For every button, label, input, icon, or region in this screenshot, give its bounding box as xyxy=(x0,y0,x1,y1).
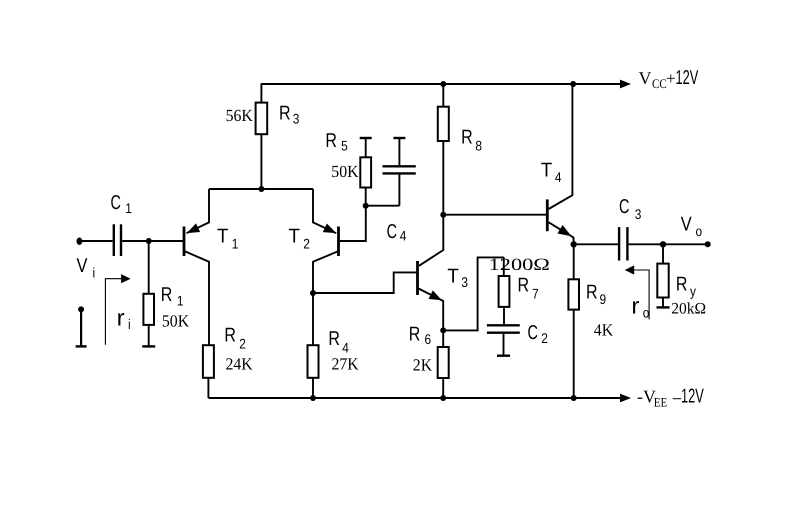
wire C3 to output xyxy=(629,243,708,245)
svg-text:C: C xyxy=(528,322,538,344)
capacitor C3 xyxy=(619,227,627,260)
label T4 xyxy=(541,159,562,185)
svg-text:C: C xyxy=(111,192,121,214)
svg-text:27K: 27K xyxy=(332,354,360,373)
wire VEE supply rail xyxy=(208,397,620,399)
label R8 xyxy=(461,127,482,154)
svg-text:+: + xyxy=(666,69,676,88)
label T3 xyxy=(447,265,468,290)
wire node to T4 base xyxy=(443,214,546,216)
svg-text:20kΩ: 20kΩ xyxy=(671,301,706,318)
label Ry xyxy=(676,274,696,299)
node T2 collector junction xyxy=(310,290,316,296)
label T2 xyxy=(289,226,311,252)
node T4 emitter junction xyxy=(571,241,577,247)
node R9 bottom on VEE rail xyxy=(571,395,577,401)
svg-text:12V: 12V xyxy=(676,67,699,89)
svg-text:2: 2 xyxy=(541,330,548,346)
label R9 xyxy=(586,281,606,307)
svg-text:C: C xyxy=(619,196,629,218)
svg-text:R: R xyxy=(409,324,421,346)
svg-text:1: 1 xyxy=(125,200,132,216)
node T3 emitter-R6 junction xyxy=(440,327,446,333)
capacitor C2 xyxy=(487,325,520,355)
label Vo xyxy=(681,214,703,240)
arrow ri (input resistance) xyxy=(105,274,130,345)
terminal input bottom xyxy=(76,306,87,346)
label VCC +12V xyxy=(639,67,699,91)
svg-text:2: 2 xyxy=(239,335,246,351)
label C4 xyxy=(387,221,407,243)
label 20kohm (Ry value) xyxy=(671,301,706,318)
node C3-Ry junction xyxy=(660,241,666,247)
wire VCC supply rail xyxy=(261,83,620,85)
label R2 xyxy=(224,325,246,352)
transistor T2 xyxy=(313,189,366,293)
svg-text:12V: 12V xyxy=(681,386,704,408)
svg-text:R: R xyxy=(676,274,688,296)
svg-text:r: r xyxy=(117,305,125,331)
label ro xyxy=(631,293,649,321)
resistor R3 xyxy=(256,84,268,189)
label -VEE -12V xyxy=(637,386,704,410)
label 2K (R6 value) xyxy=(413,355,433,374)
svg-text:R: R xyxy=(161,284,173,306)
transistor T4 xyxy=(547,84,574,244)
arrow VEE rail terminal xyxy=(620,394,631,403)
node R4 bottom on VEE rail xyxy=(310,395,316,401)
svg-text:T: T xyxy=(447,265,458,287)
svg-text:CC: CC xyxy=(652,76,667,91)
wire emitter bus xyxy=(209,188,313,190)
transistor T3 xyxy=(418,215,444,331)
svg-text:3: 3 xyxy=(293,110,300,126)
svg-text:R: R xyxy=(518,275,530,297)
label R6 xyxy=(409,324,432,348)
svg-text:T: T xyxy=(541,159,552,181)
terminal output (Vo) xyxy=(705,241,711,247)
svg-text:R: R xyxy=(279,102,291,124)
svg-text:50K: 50K xyxy=(162,311,190,330)
wire input to C1 xyxy=(80,240,113,242)
arrow VCC rail terminal xyxy=(620,80,631,89)
svg-text:R: R xyxy=(325,130,337,152)
svg-text:R: R xyxy=(328,328,340,350)
svg-text:4: 4 xyxy=(400,228,407,244)
label 50K (R5 value) xyxy=(331,162,359,181)
svg-text:4: 4 xyxy=(342,339,349,355)
svg-text:3: 3 xyxy=(635,206,642,222)
wire C1 to T1 base xyxy=(122,240,183,242)
label T1 xyxy=(217,226,239,252)
transistor T1 xyxy=(149,189,209,345)
capacitor C1 xyxy=(114,224,121,256)
label 50K (R1 value) xyxy=(162,311,190,330)
svg-text:6: 6 xyxy=(425,331,432,347)
node T4 collector on VCC rail xyxy=(570,81,576,87)
svg-text:2: 2 xyxy=(303,236,310,252)
label ri xyxy=(117,305,131,333)
resistor R7 xyxy=(499,257,510,324)
node R5-C4-T2 base xyxy=(363,203,369,209)
svg-text:V: V xyxy=(681,214,692,236)
svg-text:4: 4 xyxy=(555,169,562,185)
svg-text:56K: 56K xyxy=(226,106,254,125)
svg-text:4K: 4K xyxy=(594,321,614,340)
svg-text:24K: 24K xyxy=(226,354,254,373)
label R1 xyxy=(161,284,184,309)
label 4K (R9 value) xyxy=(594,321,614,340)
label C2 xyxy=(528,322,549,346)
svg-text:EE: EE xyxy=(654,394,668,409)
svg-text:i: i xyxy=(128,316,131,332)
wire T3 emitter to R7 xyxy=(443,257,504,330)
label 24K (R2 value) xyxy=(226,354,254,373)
capacitor C4 xyxy=(383,138,416,206)
node R6 bottom on VEE rail xyxy=(440,395,446,401)
svg-text:R: R xyxy=(586,281,598,303)
resistor R9 xyxy=(568,244,579,398)
resistor R2 xyxy=(203,345,214,398)
terminal input (Vi) xyxy=(77,238,83,245)
resistor R6 xyxy=(438,330,449,398)
svg-text:3: 3 xyxy=(461,274,468,290)
arrow ro (output resistance) xyxy=(625,265,649,319)
wire T2 collector to T3 base xyxy=(313,272,417,293)
svg-text:C: C xyxy=(387,221,397,243)
label R4 xyxy=(328,328,349,355)
label 56K (R3 value) xyxy=(226,106,254,125)
svg-text:V: V xyxy=(639,68,652,88)
svg-text:o: o xyxy=(643,304,650,320)
node C1-R1-T1 base xyxy=(146,238,152,244)
svg-text:1200Ω: 1200Ω xyxy=(489,255,550,274)
label R5 xyxy=(325,130,348,154)
svg-text:1: 1 xyxy=(177,293,184,309)
wire C4 bottom to R5 node xyxy=(366,205,400,207)
label R3 xyxy=(279,102,300,126)
svg-text:2K: 2K xyxy=(413,355,433,374)
label 1200ohm (R7 value) xyxy=(489,255,550,274)
resistor R1 xyxy=(142,241,155,346)
svg-text:T: T xyxy=(289,226,300,248)
svg-text:5: 5 xyxy=(341,138,348,154)
svg-text:R: R xyxy=(461,127,473,149)
svg-text:T: T xyxy=(217,226,228,248)
label R7 xyxy=(518,275,539,302)
svg-text:9: 9 xyxy=(600,291,607,307)
wire T4 emitter to C3 xyxy=(574,243,618,245)
svg-text:–: – xyxy=(673,390,682,407)
svg-text:o: o xyxy=(696,223,703,239)
svg-text:1: 1 xyxy=(232,236,239,252)
svg-text:V: V xyxy=(77,255,88,277)
label C1 xyxy=(111,192,133,216)
node R3-emitters junction xyxy=(258,186,264,192)
label Vi xyxy=(77,255,96,281)
label C3 xyxy=(619,196,642,222)
svg-text:r: r xyxy=(631,293,639,319)
svg-text:y: y xyxy=(690,283,696,299)
resistor R5 xyxy=(360,138,372,206)
svg-text:i: i xyxy=(93,265,96,281)
svg-text:8: 8 xyxy=(475,137,482,153)
svg-text:7: 7 xyxy=(532,285,539,301)
node R8-T3-T4 junction xyxy=(440,212,446,218)
resistor R4 xyxy=(308,293,319,398)
node R8 top on VCC rail xyxy=(440,81,446,87)
svg-text:R: R xyxy=(224,325,236,347)
svg-text:50K: 50K xyxy=(331,162,359,181)
label 27K (R4 value) xyxy=(332,354,360,373)
resistor Ry xyxy=(657,244,670,307)
resistor R8 xyxy=(438,84,449,215)
